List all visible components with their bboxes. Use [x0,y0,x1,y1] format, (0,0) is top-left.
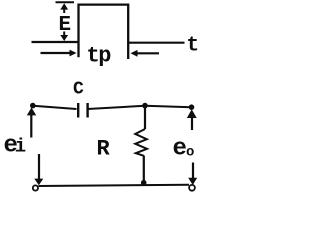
node: resistor bottom junction dot [141,180,147,186]
wire: top rail from capacitor to resistor junction [88,106,145,109]
svg-text:tp: tp [87,44,112,69]
wire: bottom rail [39,185,190,186]
wire: waveform baseline left segment [32,41,78,43]
wire: top rail from resistor junction to output node [145,106,192,107]
wire: top rail from input node to capacitor [33,106,77,109]
eo down arrow [192,163,194,179]
tp dimension left arrow [41,52,73,54]
E dimension top tick [56,1,75,3]
tp dimension right arrow [135,52,159,54]
pulse waveform rectangle (rising edge, top, falling edge) [79,5,129,59]
node: circuit input top junction dot [30,103,36,109]
capacitor C right plate [86,103,88,118]
resistor R top lead [144,106,146,129]
svg-text:R: R [97,137,111,162]
resistor R zigzag body [135,129,147,156]
eo up arrow [187,109,197,118]
output bottom terminal circle [189,185,195,191]
ei up arrow [27,108,36,116]
node: resistor top junction dot [142,103,148,109]
E dimension up arrow [60,3,68,9]
svg-text:t: t [187,35,200,58]
svg-text:o: o [186,144,194,160]
E dimension down arrow [63,32,65,37]
svg-text:C: C [73,80,84,100]
node: output top junction dot [189,104,195,110]
input bottom terminal circle [33,185,38,190]
capacitor C left plate [77,103,79,118]
svg-text:i: i [15,135,26,157]
ei down arrow [38,154,40,179]
svg-text:e: e [173,136,187,163]
wire: waveform baseline right segment (time axis) [129,42,185,44]
resistor R bottom lead [143,156,145,184]
